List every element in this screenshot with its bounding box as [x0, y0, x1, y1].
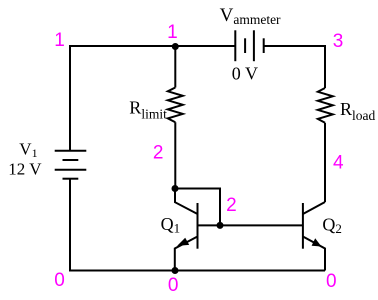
svg-text:1: 1: [54, 30, 65, 51]
svg-text:Q1: Q1: [161, 214, 181, 236]
svg-text:0: 0: [54, 270, 65, 291]
svg-text:0: 0: [326, 271, 337, 292]
svg-text:2: 2: [226, 195, 237, 216]
svg-text:3: 3: [333, 31, 344, 52]
svg-text:0 V: 0 V: [232, 64, 258, 84]
svg-text:V1: V1: [19, 139, 37, 160]
svg-text:Rlimit: Rlimit: [129, 97, 167, 121]
svg-text:Vammeter: Vammeter: [220, 5, 281, 27]
svg-text:2: 2: [153, 143, 164, 164]
svg-text:Rload: Rload: [340, 99, 376, 123]
svg-text:Q2: Q2: [322, 214, 342, 236]
svg-text:1: 1: [167, 22, 178, 43]
svg-text:0: 0: [168, 275, 179, 296]
svg-text:12 V: 12 V: [8, 159, 42, 178]
svg-text:4: 4: [333, 152, 344, 173]
